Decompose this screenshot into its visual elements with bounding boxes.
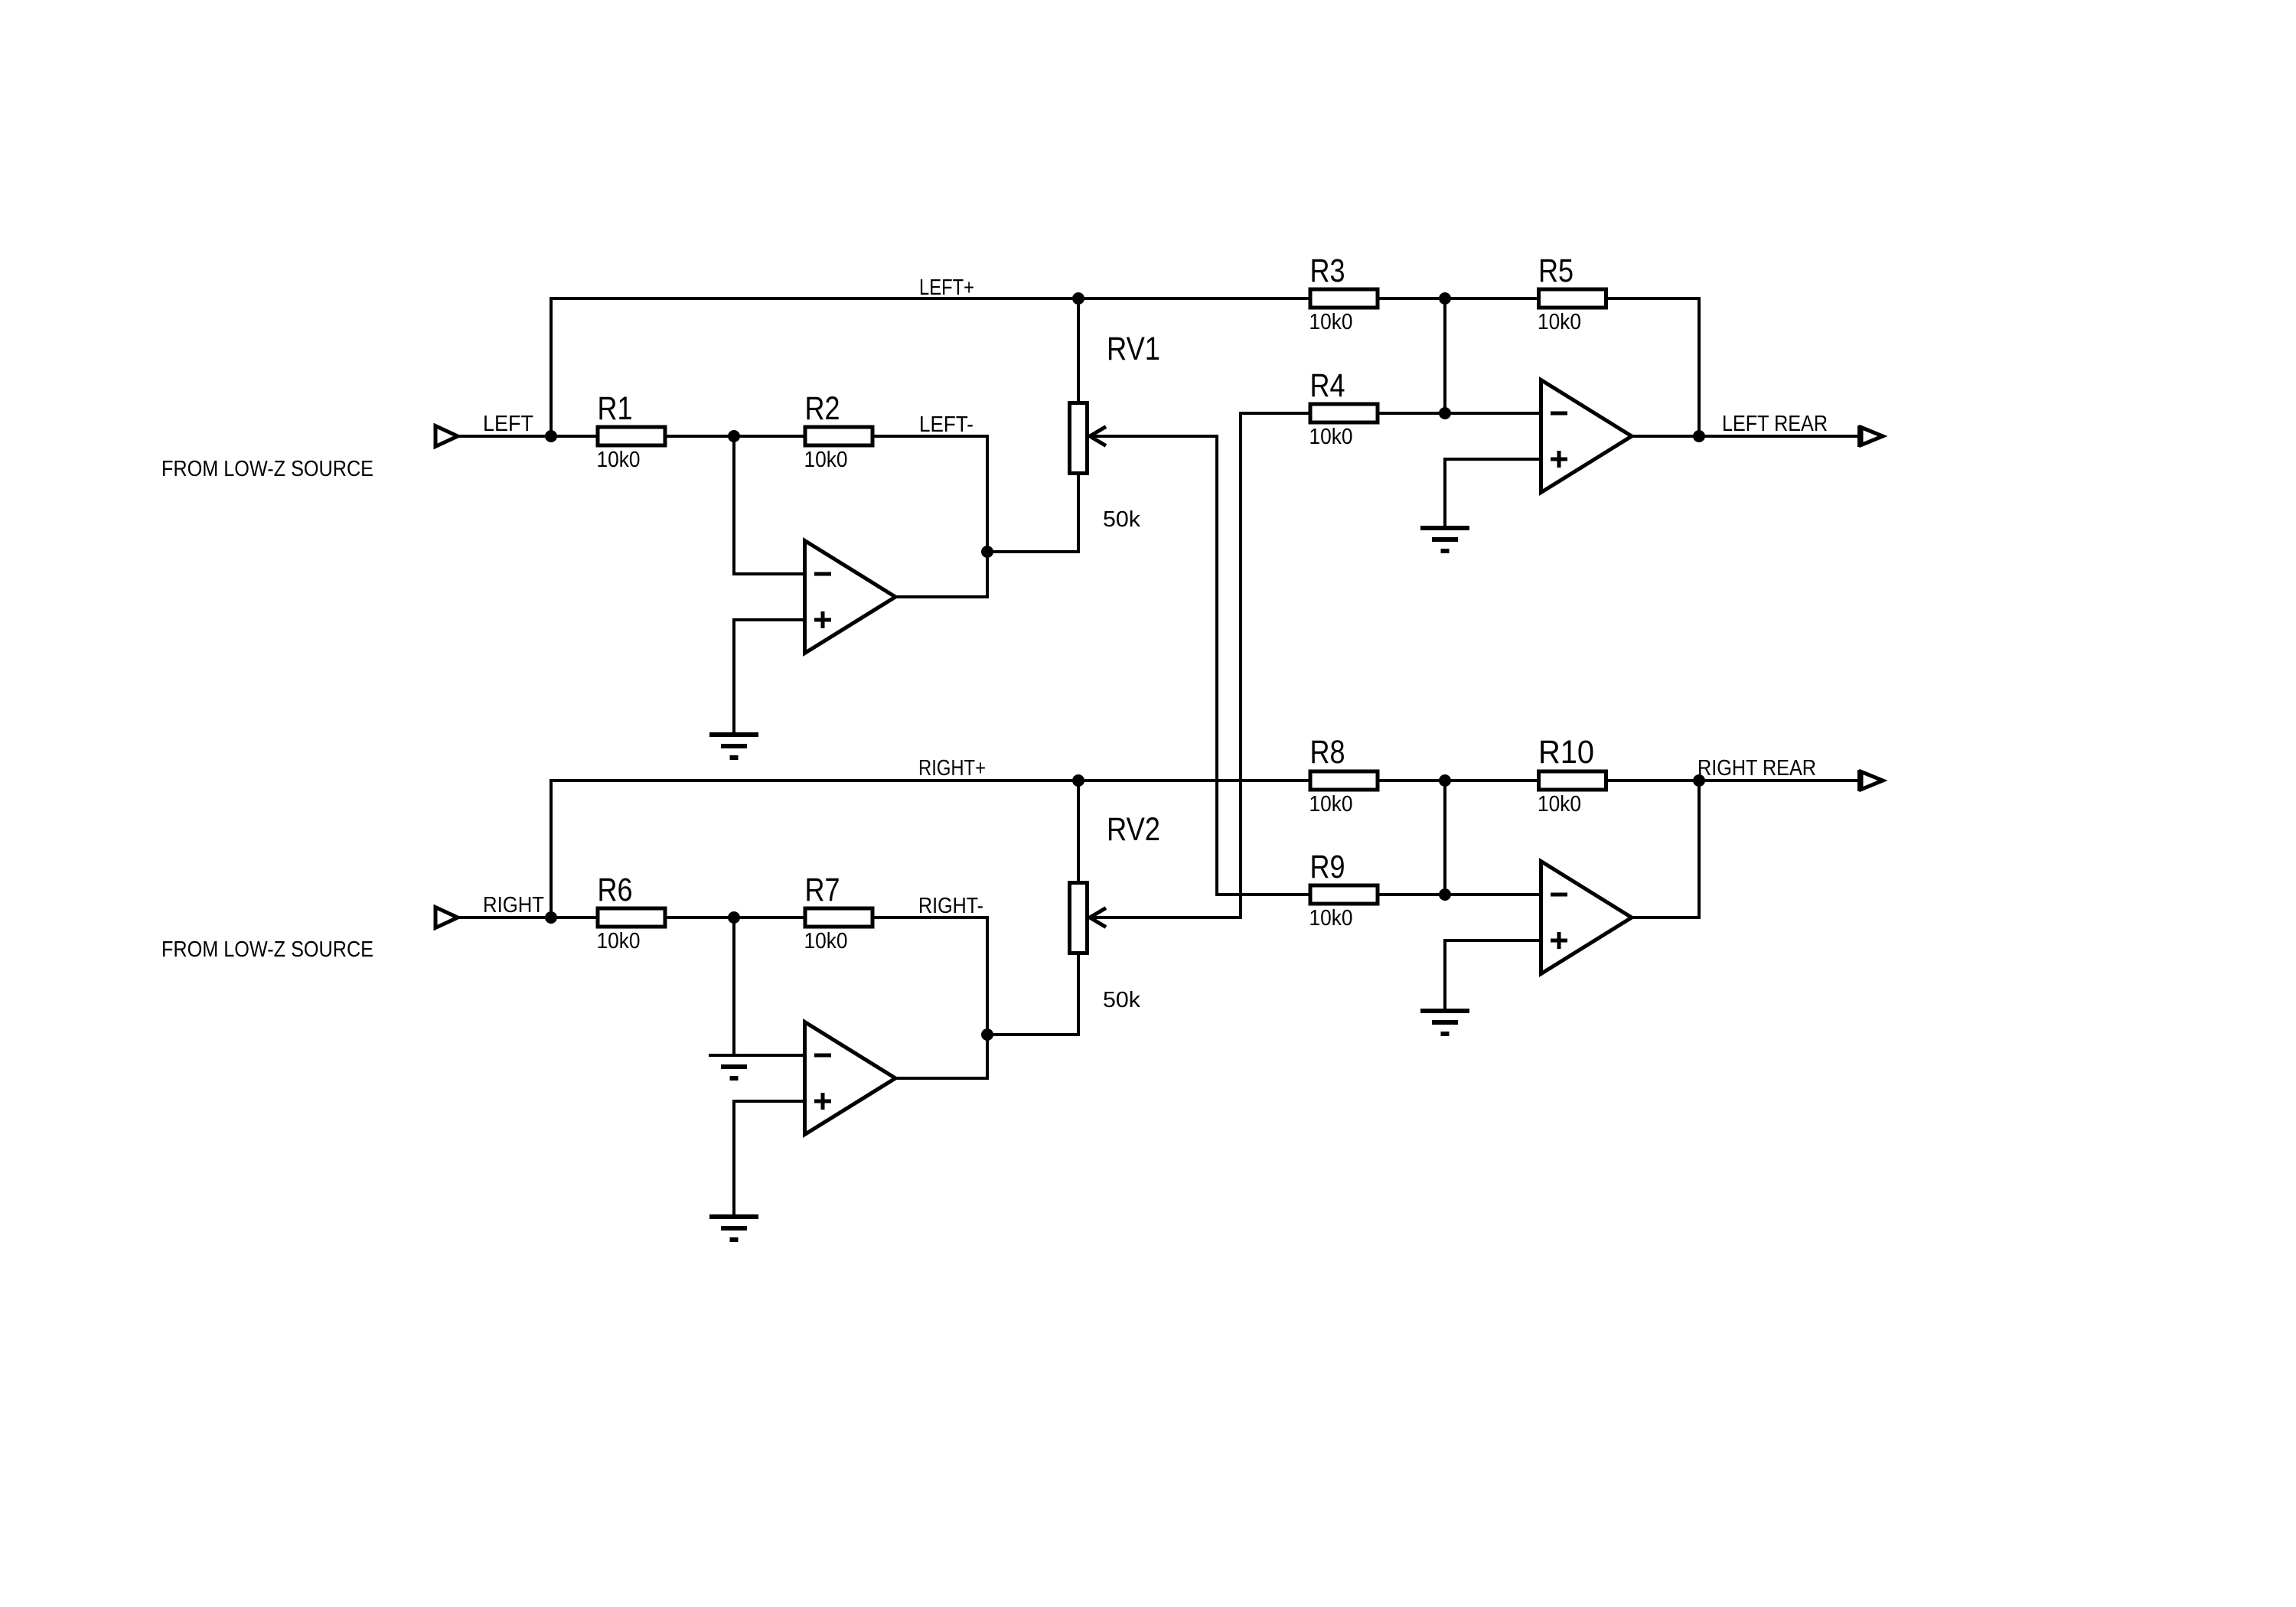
svg-text:10k0: 10k0 <box>1309 792 1353 817</box>
svg-text:10k0: 10k0 <box>1309 310 1353 334</box>
svg-text:R1: R1 <box>598 390 633 427</box>
svg-text:R2: R2 <box>805 390 840 427</box>
svg-text:10k0: 10k0 <box>804 929 848 953</box>
svg-text:R4: R4 <box>1310 367 1345 404</box>
svg-text:R5: R5 <box>1538 253 1574 289</box>
svg-text:50k: 50k <box>1103 988 1141 1012</box>
svg-text:LEFT+: LEFT+ <box>919 275 974 300</box>
svg-text:FROM LOW-Z SOURCE: FROM LOW-Z SOURCE <box>161 457 373 481</box>
svg-text:R7: R7 <box>805 872 840 908</box>
svg-text:RIGHT-: RIGHT- <box>918 894 983 918</box>
svg-text:RIGHT+: RIGHT+ <box>918 756 986 781</box>
svg-text:R8: R8 <box>1310 734 1345 771</box>
svg-text:10k0: 10k0 <box>1538 792 1581 817</box>
svg-text:LEFT: LEFT <box>483 412 533 436</box>
svg-text:10k0: 10k0 <box>597 929 641 953</box>
svg-text:RV2: RV2 <box>1107 811 1160 848</box>
svg-text:LEFT-: LEFT- <box>919 412 974 437</box>
svg-text:10k0: 10k0 <box>1309 906 1353 931</box>
svg-text:10k0: 10k0 <box>804 448 848 472</box>
svg-text:10k0: 10k0 <box>1538 310 1581 334</box>
svg-text:RIGHT REAR: RIGHT REAR <box>1698 756 1816 781</box>
svg-text:R6: R6 <box>598 872 633 908</box>
svg-text:RV1: RV1 <box>1107 331 1160 367</box>
svg-text:R9: R9 <box>1310 849 1345 885</box>
svg-text:10k0: 10k0 <box>597 448 641 472</box>
svg-text:R3: R3 <box>1310 253 1345 289</box>
svg-text:FROM LOW-Z SOURCE: FROM LOW-Z SOURCE <box>161 937 373 962</box>
svg-text:LEFT REAR: LEFT REAR <box>1722 412 1828 436</box>
svg-text:10k0: 10k0 <box>1309 425 1353 449</box>
svg-text:50k: 50k <box>1103 507 1141 532</box>
svg-text:R10: R10 <box>1538 734 1594 771</box>
svg-text:RIGHT: RIGHT <box>483 893 544 918</box>
